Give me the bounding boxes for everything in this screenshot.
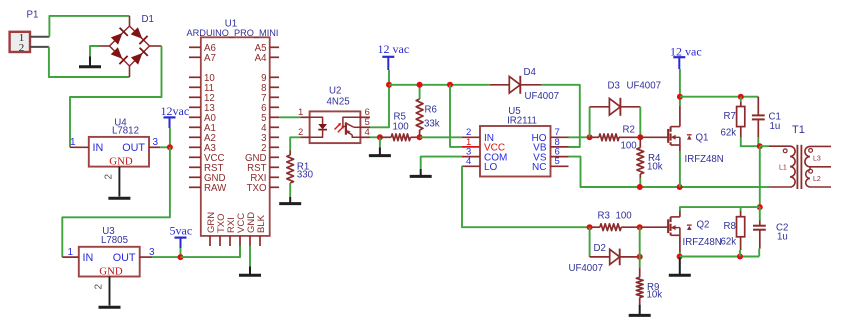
U1 right pin A4 [270, 56, 279, 58]
U1 left pin VCC [189, 156, 201, 158]
ground R9 [639, 305, 641, 316]
svg-text:R3: R3 [598, 210, 610, 221]
svg-text:D1: D1 [142, 14, 154, 25]
U1 left pin RST [189, 166, 201, 168]
U5 pin 7 HO [551, 136, 569, 138]
U2 pin 2 [300, 136, 309, 138]
wire VS [569, 157, 761, 187]
junction R6 top [417, 82, 423, 88]
svg-text:Q2: Q2 [697, 220, 710, 231]
junction snubber/T1 top [757, 143, 763, 149]
junction R7 top [738, 94, 744, 100]
U1 left pin RAW [189, 186, 201, 188]
svg-text:100: 100 [393, 121, 410, 132]
svg-text:UF4007: UF4007 [627, 81, 661, 92]
U1 left pin A6 [189, 46, 201, 48]
wire IN from R5 junction [420, 136, 462, 138]
svg-text:IRFZ48N: IRFZ48N [683, 237, 722, 248]
wire snubber node down [759, 146, 761, 207]
U3 pin 1 [62, 256, 79, 258]
junction U5 VCC riser [447, 82, 453, 88]
U1 left pin 12 [189, 96, 201, 98]
svg-text:IN: IN [93, 142, 104, 154]
junction Q2 source/ground [677, 254, 683, 260]
U5 pin 4 LO [462, 165, 480, 167]
U2 phototransistor [343, 117, 361, 137]
svg-text:100: 100 [616, 210, 633, 221]
svg-text:L2: L2 [813, 176, 821, 183]
U1 left pin A1 [189, 126, 201, 128]
wire P1.2 to bridge bottom [49, 47, 130, 77]
junction R8 bottom [737, 254, 743, 260]
svg-text:RAW: RAW [204, 183, 227, 194]
regulator U4 L7812 [89, 118, 149, 168]
U1 left pin GND [189, 176, 201, 178]
svg-text:12 vac: 12 vac [378, 42, 410, 56]
resistor R2 100 [590, 125, 641, 152]
wire R1 to ground [289, 183, 291, 197]
svg-text:BLK: BLK [256, 214, 267, 233]
svg-text:UF4007: UF4007 [525, 91, 559, 102]
U1 right pin 2 [270, 146, 279, 148]
U5 pin 2 IN [462, 136, 480, 138]
junction lower node [757, 204, 763, 210]
svg-text:2: 2 [104, 174, 115, 180]
junction 5vac [178, 254, 184, 260]
IC U1 ARDUINO_PRO_MINI [187, 19, 279, 236]
svg-text:GND: GND [109, 155, 133, 167]
U2 pin 5 [360, 126, 370, 128]
junction Q1 source/VS line [677, 184, 683, 190]
IC U5 IR2111 [480, 106, 551, 177]
svg-text:12vac: 12vac [161, 104, 190, 118]
U1 bottom pin TXO [219, 236, 221, 246]
U1 left pin 10 [189, 76, 201, 78]
U1 right pin 3 [270, 136, 279, 138]
T1 secondary L3 [805, 146, 831, 166]
U1 bottom pin GRN [209, 236, 211, 246]
svg-text:5: 5 [555, 156, 560, 167]
U1 bottom pin RXI [229, 236, 231, 246]
U1 left pin A3 [189, 146, 201, 148]
wire T1 top to snubber node [760, 145, 769, 147]
U2 LED [310, 117, 327, 137]
junction R3 left [587, 224, 593, 230]
resistor R8 62k [721, 207, 745, 256]
capacitor C1 1u [752, 97, 781, 137]
ground of bridge [90, 46, 99, 57]
junction R5/R6/U5.IN [417, 134, 423, 140]
wire arduino VCC bottom [239, 246, 241, 257]
junction R2/R4/Q1 gate [637, 134, 643, 140]
U4 pin 1 [70, 146, 89, 148]
svg-text:R2: R2 [623, 125, 635, 136]
U1 right pin RST [270, 166, 279, 168]
U1 right pin 6 [270, 106, 279, 108]
diode D3 UF4007 [590, 81, 661, 138]
svg-text:5vac: 5vac [170, 224, 193, 238]
svg-text:4: 4 [365, 127, 370, 138]
svg-text:33k: 33k [424, 119, 440, 130]
wire D4 to VB [541, 85, 580, 147]
junction U2 pin4 [377, 134, 383, 140]
connector P1 [10, 10, 39, 55]
U5 pin 3 COM [462, 156, 480, 158]
wire U4 out [160, 146, 170, 148]
resistor R5 100 [380, 112, 420, 141]
resistor R9 10k [636, 257, 662, 305]
U1 left pin 13 [189, 106, 201, 108]
U1 bottom pin VCC [239, 236, 241, 246]
wire U3 out to 5vac junction [152, 256, 181, 258]
U3 pin 2 / ground [109, 277, 111, 306]
wire U2 pin5 to 12vac rail [370, 85, 389, 128]
wire 12vac rail [389, 84, 490, 86]
resistor R1 330 [287, 151, 314, 184]
transformer T1 [792, 124, 805, 136]
U3 pin 3 [140, 256, 152, 258]
svg-text:Q1: Q1 [696, 132, 709, 143]
diode D2 UF4007 [569, 227, 640, 274]
U1 right pin 4 [270, 126, 279, 128]
U4 pin 3 [149, 146, 160, 148]
svg-text:U2: U2 [329, 86, 341, 97]
U5 pin 1 VCC [462, 146, 480, 148]
junction HO/D3/R2 [587, 134, 593, 140]
wire lower node to Q2 drain [680, 207, 760, 211]
svg-text:1: 1 [68, 247, 74, 258]
junction 12vac/U4 out [167, 144, 173, 150]
svg-text:OUT: OUT [113, 252, 136, 264]
diode D4 UF4007 [490, 67, 559, 102]
svg-text:IR2111: IR2111 [507, 116, 537, 127]
Q1 gate lead [640, 136, 668, 138]
U1 right pin TXO [270, 186, 279, 188]
svg-text:2: 2 [94, 284, 105, 290]
U2 pin 6 [360, 116, 370, 118]
regulator U3 L7805 [79, 226, 140, 278]
wire right rail [680, 96, 758, 98]
U1 right pin 9 [270, 76, 279, 78]
T1 primary L1 [769, 146, 795, 187]
bridge rectifier D1 [99, 14, 162, 77]
wire U2 pin2 to R1 [290, 137, 300, 150]
U5 pin 8 VB [551, 146, 569, 148]
svg-text:62k: 62k [721, 236, 737, 247]
wire U2 pin4 [370, 136, 380, 138]
wire VB riser [569, 146, 580, 148]
svg-text:L1: L1 [779, 164, 787, 171]
resistor R7 62k [721, 97, 745, 139]
U1 left pin 11 [189, 86, 201, 88]
svg-text:NC: NC [532, 162, 546, 173]
U1 left pin A2 [189, 136, 201, 138]
svg-text:L3: L3 [813, 156, 821, 163]
svg-text:L7805: L7805 [101, 235, 128, 246]
U1 right pin 8 [270, 86, 279, 88]
svg-text:D4: D4 [524, 67, 537, 78]
U2 light arrows [335, 123, 345, 132]
svg-text:3: 3 [153, 137, 159, 148]
transistor Q1 IRFZ48N [668, 127, 724, 165]
Q2 source lead [679, 235, 681, 252]
U2 pin 1 [300, 116, 309, 118]
U1 right pin RXI [270, 176, 279, 178]
svg-text:A7: A7 [204, 53, 216, 64]
U1 right pin 7 [270, 96, 279, 98]
wire C1 bottom to node [757, 137, 759, 146]
U1 right pin 5 [270, 116, 279, 118]
svg-text:330: 330 [297, 169, 314, 180]
svg-text:D2: D2 [594, 243, 606, 254]
U1 bottom pin GND [249, 236, 251, 246]
svg-text:1: 1 [70, 137, 76, 148]
svg-text:IRFZ48N: IRFZ48N [685, 154, 724, 165]
svg-text:D3: D3 [608, 81, 620, 92]
ground Q2 source [679, 258, 681, 276]
junction R3 right [637, 224, 643, 230]
svg-text:P1: P1 [27, 10, 39, 21]
P1 pin 1 stub [30, 36, 49, 38]
svg-text:R6: R6 [425, 105, 437, 116]
capacitor C2 1u [753, 207, 788, 256]
ground U2 pin4 [379, 137, 381, 147]
U1 right pin A5 [270, 46, 279, 48]
Q2 drain lead [679, 211, 681, 217]
svg-text:TXO: TXO [247, 183, 267, 194]
wire P1.1 to bridge top [49, 16, 129, 37]
wire R4 bottom [639, 178, 641, 187]
svg-text:UF4007: UF4007 [569, 263, 603, 274]
wire 12V to U3 input [62, 147, 170, 257]
svg-text:100: 100 [621, 141, 638, 152]
wire arduino pin5 to U2 pin1 [279, 116, 300, 118]
svg-text:2: 2 [298, 127, 303, 138]
resistor R4 10k [637, 137, 663, 178]
U1 left pin A7 [189, 56, 201, 58]
wire R7 bottom to node [741, 137, 760, 146]
svg-text:T1: T1 [792, 124, 805, 136]
U1 right pin GND [270, 156, 279, 158]
svg-text:ARDUINO_PRO_MINI: ARDUINO_PRO_MINI [187, 28, 279, 38]
U1 bottom pin BLK [259, 236, 261, 246]
wire bridge to U4 input [70, 46, 162, 147]
svg-text:1u: 1u [777, 232, 788, 243]
junction rail/pin5 riser [386, 82, 392, 88]
U4 pin 2 / ground [118, 167, 120, 197]
junction R4/VS line [637, 184, 643, 190]
arduino GND bottom to ground [249, 246, 251, 267]
resistor R6 33k [416, 85, 440, 138]
wire VCC riser [450, 85, 462, 147]
resistor R3 100 [590, 210, 640, 230]
svg-text:A4: A4 [255, 53, 267, 64]
T1 secondary L2 [806, 167, 831, 187]
svg-text:R8: R8 [724, 221, 736, 232]
svg-text:L7812: L7812 [112, 126, 139, 137]
optocoupler U2 4N25 [310, 86, 361, 144]
wire T1 bottom lead [760, 186, 769, 188]
svg-text:2: 2 [19, 42, 25, 54]
wire COM to ground [421, 157, 462, 169]
svg-text:62k: 62k [721, 128, 737, 139]
Q1 drain lead [679, 106, 681, 127]
svg-text:4: 4 [466, 156, 471, 167]
svg-text:10k: 10k [647, 290, 663, 301]
T1 core [796, 145, 798, 189]
junction right rail/Q1 drain [677, 94, 683, 100]
wire 5V to arduino VCC pin [181, 246, 241, 257]
ground R1 [289, 197, 291, 204]
U1 left pin A0 [189, 116, 201, 118]
Q2 gate lead [640, 226, 669, 228]
U5 pin 5 NC [551, 165, 569, 167]
svg-text:OUT: OUT [122, 142, 145, 154]
svg-text:GND: GND [99, 265, 123, 277]
U2 pin 4 [360, 136, 370, 138]
transistor Q2 IRFZ48N [668, 217, 722, 248]
Q1 source lead [679, 145, 681, 151]
wire bottom rail [680, 256, 760, 258]
P1 pin 2 stub [30, 46, 49, 48]
svg-text:1u: 1u [770, 121, 781, 132]
wire LO to R3 [462, 166, 590, 227]
svg-text:IN: IN [83, 252, 94, 264]
svg-text:10k: 10k [647, 161, 663, 172]
svg-text:LO: LO [484, 162, 498, 173]
junction D2/R9 [637, 254, 643, 260]
U5 pin 6 VS [551, 156, 569, 158]
wire R3 right to D2 [639, 227, 641, 257]
svg-text:4N25: 4N25 [327, 97, 350, 108]
svg-text:1: 1 [298, 107, 303, 118]
svg-text:R7: R7 [724, 111, 736, 122]
wire HO [569, 136, 590, 138]
